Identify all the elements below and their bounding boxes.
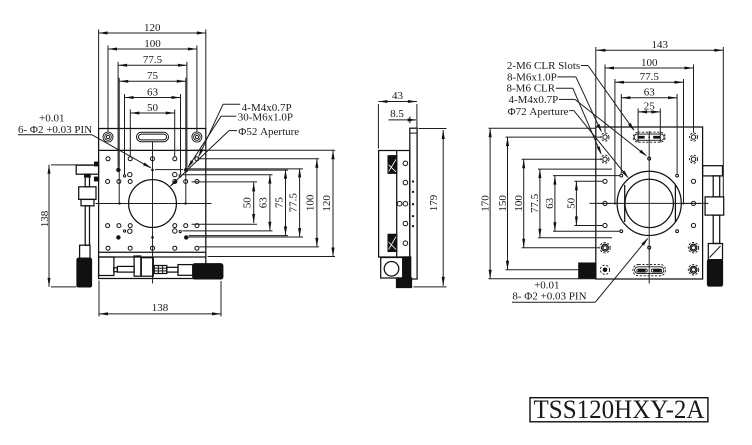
left view: actuator bracket left <box>76 165 98 174</box>
svg-text:143: 143 <box>652 39 669 51</box>
left view: micrometer rod 2 <box>167 267 178 272</box>
right view: leader to M6 clearance hole <box>573 88 601 153</box>
middle view: hatch section edge lines <box>388 155 397 157</box>
right view: top dimension 77.5 <box>615 81 684 83</box>
svg-text:43: 43 <box>392 90 404 102</box>
svg-text:+0.01: +0.01 <box>534 279 559 291</box>
svg-text:63: 63 <box>644 87 656 99</box>
right view: actuator knob right (black) <box>708 260 723 286</box>
svg-text:77.5: 77.5 <box>640 71 660 83</box>
svg-text:63: 63 <box>258 197 270 209</box>
middle view: upper micrometer section (hatched) <box>388 156 397 173</box>
right view: left dim extension lines <box>489 127 596 129</box>
svg-text:170: 170 <box>479 195 491 212</box>
left view: micrometer spindle rod <box>117 266 134 272</box>
right view: vertical centerline <box>648 131 650 284</box>
middle view: dimension 8.5 <box>388 119 416 121</box>
left view: actuator knob left (black) <box>77 258 92 287</box>
right view: top slot (M6 CLR slot) <box>633 132 665 142</box>
right view: M6 threaded hole (605,159) <box>603 157 607 161</box>
left view: carriage edge line <box>99 251 206 253</box>
svg-text:25: 25 <box>644 101 656 113</box>
right view: aperture circle &#216;72 outer <box>617 171 681 235</box>
svg-text:120: 120 <box>144 22 161 34</box>
right view: bottom slot connector <box>633 264 666 275</box>
left view: right dimension 100 <box>316 159 318 247</box>
left view: micrometer thread section <box>154 266 167 274</box>
right view: M4 holes 4x <box>620 174 623 177</box>
left view: lower row of six holes <box>106 224 110 228</box>
right view: top dimension 143 <box>596 49 723 51</box>
left view: micrometer lock block <box>141 258 153 277</box>
right view: hole center ticks <box>598 202 613 204</box>
left view: top dim extension lines <box>98 30 100 129</box>
svg-text:TSS120HXY-2A: TSS120HXY-2A <box>534 394 705 424</box>
left view: right dimension 63 <box>269 175 271 231</box>
left view: right dimension 77.5 <box>299 168 301 237</box>
right view: leader to aperture circle <box>574 111 628 177</box>
left view: M6/M4 hole pairs <box>128 172 132 176</box>
left view: right dimension 75 <box>285 170 287 236</box>
svg-text:75: 75 <box>273 197 285 209</box>
left view: top dimension 120 <box>99 32 206 34</box>
right view: actuator lock block right <box>705 197 724 215</box>
left view: stage front plate outline <box>99 129 206 279</box>
left view: actuator lock block left <box>79 187 96 200</box>
svg-text:50: 50 <box>147 102 159 114</box>
left view: bottom strip divider line <box>99 256 206 258</box>
left view: actuator upper stem left <box>85 174 89 187</box>
left view: micrometer spindle tip <box>114 268 118 272</box>
svg-text:63: 63 <box>544 197 556 209</box>
middle view: body divider line <box>396 151 398 258</box>
middle view: base plate (side) <box>410 128 417 279</box>
right view: pin holes on centerline <box>648 157 651 160</box>
right view: black mount block <box>579 263 596 278</box>
svg-text:Φ72 Aperture: Φ72 Aperture <box>508 106 569 118</box>
left view: micrometer left box <box>99 257 114 276</box>
left view: pin row connection line <box>155 169 183 171</box>
svg-text:75: 75 <box>147 70 159 82</box>
svg-text:63: 63 <box>147 86 159 98</box>
right view: leader to M6 threaded hole <box>576 77 601 131</box>
title block box <box>530 398 708 422</box>
left view: small pin dots on centerlines <box>118 202 120 204</box>
left view: horizontal centerline <box>96 203 212 205</box>
left view: top dimension 100 <box>108 48 197 50</box>
right view: left dimension 170 <box>489 128 491 278</box>
left view: top dimension 77.5 <box>118 64 187 66</box>
right view: left dimension 150 <box>507 137 509 270</box>
right view: aperture circle inner <box>625 179 673 227</box>
left view: micrometer bracket plate <box>134 256 141 276</box>
left view: micrometer sleeve <box>178 265 193 276</box>
left view: left dimension 138 <box>48 165 50 287</box>
left view: leader to M4 hole <box>199 104 223 156</box>
middle view: lower micrometer section (hatched) <box>388 234 397 251</box>
right view: top dimension 100 <box>605 67 694 69</box>
left view: actuator sleeve left <box>80 245 90 258</box>
right view: horizontal centerline <box>590 202 709 204</box>
right view: M6 threaded hole (693,159) <box>691 157 695 161</box>
right view: top dimension 63 <box>621 97 677 99</box>
middle view: knob end circle <box>384 262 399 277</box>
right view: actuator upper stem right <box>713 176 720 197</box>
middle view: black foot <box>397 278 412 288</box>
right view: leader to pin hole above aperture <box>575 99 646 155</box>
left view: leader to M6 hole <box>188 116 221 167</box>
svg-text:50: 50 <box>566 197 578 209</box>
svg-text:100: 100 <box>641 57 658 69</box>
right view: top dimension 25 <box>638 111 660 113</box>
right view: M6 CLR counterbored holes <box>603 246 607 250</box>
left view: left edge section marks <box>95 162 99 166</box>
svg-text:8.5: 8.5 <box>390 108 404 120</box>
right view: leader to top slot <box>588 66 634 131</box>
right view: actuator sleeve right <box>708 244 722 260</box>
left view: actuator flange left <box>81 199 94 205</box>
svg-text:8-M6x1.0P: 8-M6x1.0P <box>507 71 557 83</box>
left view: counterbore hole right <box>192 132 202 142</box>
middle view: stage body (side) <box>379 151 410 258</box>
svg-text:120: 120 <box>321 195 333 212</box>
right view: left dimension 100 <box>523 159 525 248</box>
right view: left dimension 63 <box>554 176 556 232</box>
svg-text:+0.01: +0.01 <box>39 113 64 125</box>
svg-text:30-M6x1.0P: 30-M6x1.0P <box>238 112 293 124</box>
left view: lower row of five M6 holes <box>106 246 110 250</box>
middle view: small pin dots <box>412 180 414 182</box>
middle view: dimension 179 <box>442 130 444 286</box>
right view: pin leader line <box>512 301 595 303</box>
right view: filled pin hole with dashed ring <box>603 268 608 273</box>
right view: left dimension 77.5 <box>539 169 541 238</box>
svg-text:77.5: 77.5 <box>143 54 163 66</box>
right view: M6 threaded hole (605,137) <box>603 135 607 139</box>
left view: right dimension 50 <box>253 182 255 223</box>
svg-text:50: 50 <box>242 197 254 209</box>
svg-text:77.5: 77.5 <box>529 193 541 213</box>
left view: right dim extension lines <box>194 149 336 151</box>
svg-text:150: 150 <box>497 195 509 212</box>
left view: top dimension 75 <box>119 80 186 82</box>
left view: right dimension 120 <box>332 150 334 256</box>
middle view: black spacer bar <box>403 257 411 280</box>
left view: counterbore hole left <box>103 132 113 142</box>
right view: rear plate outline <box>596 127 703 279</box>
left view: top slot obround <box>137 132 169 141</box>
right view: plain side holes <box>603 179 607 183</box>
right view: actuator lower stem right <box>713 215 720 243</box>
left view: upper row of six holes <box>106 180 110 184</box>
left view: upper row of five M6 holes <box>106 157 110 161</box>
middle view: dimension 43 <box>378 101 417 103</box>
svg-text:8- Φ2 +0.03 PIN: 8- Φ2 +0.03 PIN <box>512 291 586 303</box>
middle view: knob housing box <box>381 258 403 279</box>
right view: aperture chord lines <box>624 185 626 222</box>
middle view: side holes <box>403 161 408 166</box>
svg-text:100: 100 <box>144 38 161 50</box>
left view: top platform divider line <box>99 149 206 151</box>
left view: leader to aperture <box>171 131 229 186</box>
left view: dowel pin holes 6-&#216;2 (filled) <box>116 168 120 172</box>
svg-text:77.5: 77.5 <box>287 193 299 213</box>
svg-text:138: 138 <box>152 302 169 314</box>
left view: aperture circle &#216;52 <box>129 180 177 228</box>
svg-text:138: 138 <box>39 210 51 227</box>
left view: top dimension 63 <box>125 97 181 99</box>
left view: pin leader line <box>18 134 92 136</box>
svg-text:6- Φ2 +0.03 PIN: 6- Φ2 +0.03 PIN <box>18 124 92 136</box>
left view: actuator lower stem left <box>85 206 89 245</box>
svg-text:100: 100 <box>513 195 525 212</box>
svg-text:4-M4x0.7P: 4-M4x0.7P <box>508 94 558 106</box>
left view: vertical centerline <box>152 142 154 284</box>
svg-text:179: 179 <box>428 194 440 211</box>
left view: micrometer knob (black) <box>193 264 223 279</box>
svg-text:2-M6 CLR Slots: 2-M6 CLR Slots <box>507 60 580 72</box>
svg-text:Φ52 Aperture: Φ52 Aperture <box>238 126 299 138</box>
right view: left dimension 50 <box>575 181 577 225</box>
left view: top dimension 50 <box>130 112 174 114</box>
left view: bottom dimension 138 <box>99 313 221 315</box>
svg-text:100: 100 <box>305 194 317 211</box>
right view: M6 threaded hole (693,137) <box>691 135 695 139</box>
right view: actuator bracket right <box>703 166 723 176</box>
right view: top dim extension lines <box>595 47 597 127</box>
